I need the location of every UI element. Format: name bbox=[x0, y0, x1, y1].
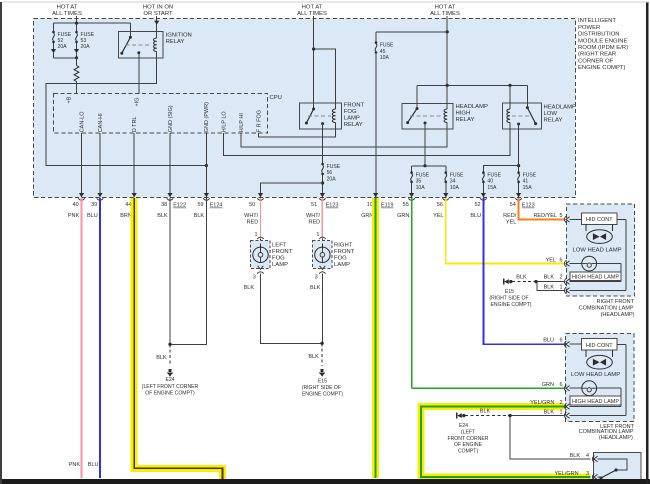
wire fuse top bus bbox=[54, 22, 131, 25]
svg-text:E15: E15 bbox=[318, 378, 327, 384]
svg-text:H/LP HI: H/LP HI bbox=[239, 113, 245, 133]
ignition relay bbox=[119, 31, 192, 58]
svg-text:HOT IN ON: HOT IN ON bbox=[143, 4, 173, 10]
svg-text:(LEFT: (LEFT bbox=[461, 429, 475, 435]
svg-text:WHT/: WHT/ bbox=[306, 213, 321, 219]
pin H/LP HI wire to high relay coil bbox=[239, 113, 447, 147]
svg-text:5: 5 bbox=[559, 213, 562, 219]
resistor (+B feed) bbox=[74, 58, 79, 94]
svg-text:FUSE: FUSE bbox=[327, 164, 341, 170]
svg-text:YEL: YEL bbox=[433, 213, 443, 219]
terminal 44 BRN bbox=[120, 193, 137, 219]
frame right bar bbox=[646, 2, 649, 484]
HIGH HEAD LAMP box (right) bbox=[570, 272, 621, 281]
svg-text:BLK: BLK bbox=[310, 285, 321, 291]
svg-text:PNK: PNK bbox=[68, 213, 80, 219]
svg-text:RELAY: RELAY bbox=[456, 117, 475, 123]
terminal 38 E122 BLK bbox=[157, 193, 186, 219]
svg-text:BLK: BLK bbox=[156, 355, 167, 361]
headlamp low relay switch bbox=[512, 85, 537, 125]
fuse 45 10A bbox=[375, 30, 449, 197]
svg-text:(RIGHT SIDE OF: (RIGHT SIDE OF bbox=[302, 385, 341, 391]
svg-text:20A: 20A bbox=[327, 176, 337, 182]
svg-text:HEADLAMP: HEADLAMP bbox=[456, 104, 488, 110]
svg-text:CORNER OF: CORNER OF bbox=[578, 58, 614, 64]
ignition relay coil bbox=[154, 25, 157, 58]
svg-text:YEL/GRN: YEL/GRN bbox=[554, 471, 578, 477]
front fog lamp relay bbox=[300, 103, 365, 129]
svg-text:RELAY: RELAY bbox=[166, 39, 185, 45]
svg-text:GND (PWR): GND (PWR) bbox=[204, 102, 210, 132]
terminal 39 BLU bbox=[87, 193, 103, 219]
svg-text:54: 54 bbox=[510, 202, 516, 208]
svg-text:RED: RED bbox=[247, 220, 259, 226]
svg-text:HEADLAMP: HEADLAMP bbox=[544, 104, 576, 110]
node HOT AT ALL TIMES (center) bbox=[297, 4, 327, 16]
svg-text:E15: E15 bbox=[505, 289, 514, 295]
svg-text:BLK: BLK bbox=[244, 285, 255, 291]
IPDM E/R dashed box bbox=[34, 19, 576, 198]
wire headlamp feed bus bbox=[417, 84, 527, 87]
wire BLK E24 to daytime relay bbox=[510, 416, 591, 459]
svg-text:RIGHT: RIGHT bbox=[334, 242, 353, 248]
svg-text:RIGHT FRONT: RIGHT FRONT bbox=[597, 299, 635, 305]
fuse 35 10A bbox=[410, 171, 429, 197]
svg-text:3: 3 bbox=[586, 471, 589, 477]
ground E24 (CPU grounds) bbox=[142, 343, 199, 397]
wire BLK from E122 bbox=[169, 198, 171, 344]
svg-text:E123: E123 bbox=[326, 203, 339, 209]
svg-text:2: 2 bbox=[559, 274, 562, 280]
wire fog switch output to fuse 56 bbox=[322, 124, 324, 164]
svg-text:RED/YEL: RED/YEL bbox=[533, 213, 557, 219]
wire fog output split to terminals 50/51 bbox=[261, 175, 325, 197]
svg-text:BLK: BLK bbox=[544, 284, 555, 290]
svg-text:6: 6 bbox=[559, 338, 562, 344]
svg-text:E119: E119 bbox=[381, 203, 393, 209]
daytime light relay box bbox=[554, 452, 640, 483]
svg-text:ENGINE COMPT): ENGINE COMPT) bbox=[490, 302, 531, 308]
svg-text:RED/: RED/ bbox=[503, 213, 517, 219]
frame top line bbox=[2, 1, 648, 3]
HID CONT box (right lamp) bbox=[582, 213, 617, 225]
ground E24 (left lamp) bbox=[448, 423, 489, 454]
svg-text:LOW HEAD LAMP: LOW HEAD LAMP bbox=[571, 372, 620, 378]
terminal 59 E124 BLK bbox=[194, 193, 223, 219]
wire feed 2 bbox=[154, 16, 159, 38]
svg-text:10A: 10A bbox=[416, 185, 426, 191]
svg-text:BLK: BLK bbox=[308, 354, 319, 360]
wire BLK right fog ground bbox=[310, 274, 322, 344]
svg-text:51: 51 bbox=[311, 202, 317, 208]
ground E15 (right lamp) bbox=[489, 289, 531, 308]
headlamp low relay bbox=[502, 103, 576, 129]
svg-text:GRN: GRN bbox=[542, 382, 554, 388]
wire BRN highlighted yellow bbox=[134, 198, 222, 480]
svg-text:10A: 10A bbox=[450, 185, 460, 191]
fuse 53 20A bbox=[74, 23, 95, 58]
pin F R FOG wire to fog relay coil bbox=[256, 110, 335, 137]
terminal 55 GRN bbox=[397, 193, 415, 219]
svg-text:E123: E123 bbox=[522, 203, 535, 209]
svg-text:F R FOG: F R FOG bbox=[256, 110, 262, 132]
wire fuse bottom bus bbox=[54, 56, 79, 59]
svg-text:LAMP: LAMP bbox=[334, 262, 350, 268]
svg-text:3: 3 bbox=[253, 275, 256, 281]
wire BLK right lamp to E15 bbox=[504, 275, 564, 291]
node HOT AT ALL TIMES (left) bbox=[52, 4, 82, 16]
svg-text:59: 59 bbox=[197, 202, 203, 208]
svg-text:H/LP LO: H/LP LO bbox=[221, 111, 227, 133]
pin H/LP LO wire to low relay coil bbox=[221, 111, 510, 156]
svg-text:41: 41 bbox=[523, 179, 529, 185]
svg-text:20A: 20A bbox=[81, 44, 91, 50]
svg-text:1: 1 bbox=[316, 232, 319, 238]
svg-text:LAMP: LAMP bbox=[344, 116, 360, 122]
xenon bulb (left lamp) bbox=[586, 350, 613, 369]
svg-text:HOT AT: HOT AT bbox=[57, 4, 78, 10]
svg-text:BLU: BLU bbox=[543, 338, 554, 344]
svg-text:FUSE: FUSE bbox=[523, 172, 537, 178]
wire ignition switch output to +IG bbox=[138, 53, 140, 94]
svg-text:6: 6 bbox=[559, 382, 562, 388]
svg-text:BLU: BLU bbox=[87, 213, 98, 219]
svg-text:PNK: PNK bbox=[69, 462, 81, 468]
svg-text:FUSE: FUSE bbox=[380, 43, 394, 49]
wire BLK from E124 bbox=[170, 198, 206, 344]
terminal 2 YEL/GRN left lamp bbox=[530, 400, 621, 410]
fuse 52 20A bbox=[51, 23, 72, 58]
svg-text:1: 1 bbox=[559, 410, 562, 416]
svg-text:BLK: BLK bbox=[157, 213, 168, 219]
HID CONT box (left lamp) bbox=[582, 339, 617, 351]
svg-text:RED: RED bbox=[308, 220, 320, 226]
high beam bulb (right lamp) bbox=[582, 256, 621, 281]
svg-text:HOT AT: HOT AT bbox=[435, 4, 456, 10]
svg-text:OR START: OR START bbox=[143, 11, 173, 17]
svg-text:FUSE: FUSE bbox=[58, 32, 72, 38]
svg-text:E122: E122 bbox=[173, 203, 186, 209]
svg-text:COMPT): COMPT) bbox=[458, 448, 478, 454]
svg-text:FRONT CORNER: FRONT CORNER bbox=[448, 436, 489, 442]
svg-text:ROOM (IPDM E/R): ROOM (IPDM E/R) bbox=[578, 45, 628, 51]
svg-text:FRONT: FRONT bbox=[334, 249, 355, 255]
svg-text:FOG: FOG bbox=[344, 109, 357, 115]
terminal 1 BLK left lamp bbox=[544, 344, 626, 419]
svg-text:LAMP: LAMP bbox=[272, 262, 288, 268]
svg-text:6: 6 bbox=[559, 258, 562, 264]
svg-text:YEL: YEL bbox=[546, 258, 556, 264]
svg-text:D TRL: D TRL bbox=[132, 117, 138, 133]
svg-text:FUSE: FUSE bbox=[487, 172, 501, 178]
ground E15 (fog lamps) bbox=[302, 342, 343, 398]
svg-text:(RIGHT SIDE OF: (RIGHT SIDE OF bbox=[489, 296, 528, 302]
svg-text:(HEADLAMP): (HEADLAMP) bbox=[601, 312, 635, 318]
svg-text:38: 38 bbox=[161, 202, 167, 208]
svg-text:COMBINATION LAMP: COMBINATION LAMP bbox=[579, 306, 634, 312]
HIGH HEAD LAMP box (left) bbox=[570, 396, 621, 405]
svg-text:OF ENGINE: OF ENGINE bbox=[454, 442, 483, 448]
terminal 6 BLU left lamp bbox=[543, 338, 581, 348]
svg-text:BLK: BLK bbox=[516, 275, 527, 281]
svg-text:CAN-HI: CAN-HI bbox=[98, 113, 104, 132]
svg-text:56: 56 bbox=[437, 202, 443, 208]
svg-text:GRN: GRN bbox=[397, 213, 409, 219]
svg-text:+B: +B bbox=[67, 96, 73, 103]
terminal 56 YEL bbox=[433, 193, 449, 219]
wire feed 1 bbox=[76, 16, 78, 23]
terminal 51 E123 WHT/RED bbox=[306, 193, 338, 226]
CPU box bbox=[54, 94, 282, 134]
svg-text:ALL TIMES: ALL TIMES bbox=[52, 11, 82, 17]
svg-text:1: 1 bbox=[559, 284, 562, 290]
svg-text:40: 40 bbox=[73, 202, 79, 208]
svg-text:INTELLIGENT: INTELLIGENT bbox=[578, 18, 616, 24]
front fog relay coil bbox=[312, 47, 336, 129]
svg-text:(HEADLAMP): (HEADLAMP) bbox=[599, 435, 633, 441]
svg-text:BLK: BLK bbox=[544, 410, 555, 416]
svg-text:52: 52 bbox=[474, 202, 480, 208]
terminal 40 PNK bbox=[68, 193, 85, 219]
svg-text:BLU: BLU bbox=[88, 462, 99, 468]
headlamp high relay coil bbox=[444, 85, 447, 129]
svg-text:MODULE ENGINE: MODULE ENGINE bbox=[578, 38, 627, 44]
wire WHT/RED to left fog lamp bbox=[254, 198, 263, 244]
svg-text:DISTRIBUTION: DISTRIBUTION bbox=[578, 32, 620, 38]
svg-text:HIGH: HIGH bbox=[456, 111, 471, 117]
wire GRN highlighted (E119) bbox=[372, 198, 379, 478]
svg-text:FRONT: FRONT bbox=[272, 249, 293, 255]
svg-text:FUSE: FUSE bbox=[450, 172, 464, 178]
svg-text:45: 45 bbox=[380, 49, 386, 55]
wire feed 4 bbox=[446, 16, 448, 109]
ignition relay switch bbox=[120, 23, 152, 55]
svg-text:BRN: BRN bbox=[120, 213, 132, 219]
fuse 34 10A bbox=[445, 171, 464, 197]
wire BLK left lamp to E24 bbox=[457, 409, 564, 419]
svg-text:56: 56 bbox=[327, 170, 333, 176]
svg-text:20A: 20A bbox=[58, 44, 68, 50]
svg-text:LOW HEAD LAMP: LOW HEAD LAMP bbox=[572, 248, 621, 254]
svg-text:(RIGHT REAR: (RIGHT REAR bbox=[578, 52, 616, 58]
terminal 1 BLK right lamp bbox=[544, 219, 626, 293]
svg-text:15A: 15A bbox=[523, 185, 533, 191]
left front fog lamp bbox=[251, 240, 293, 273]
wire RED/YEL to right head lamp bbox=[519, 198, 564, 219]
svg-text:POWER: POWER bbox=[578, 25, 600, 31]
svg-text:BLK: BLK bbox=[570, 453, 581, 459]
wire low relay output to fuses 40/41 bbox=[483, 124, 520, 173]
headlamp high relay switch bbox=[406, 85, 441, 124]
svg-text:(LEFT FRONT CORNER: (LEFT FRONT CORNER bbox=[142, 384, 199, 390]
wire GRN to left head lamp bbox=[411, 198, 413, 388]
wire YEL to right head lamp bbox=[446, 198, 564, 263]
terminal 52 BLU bbox=[470, 193, 486, 219]
svg-text:E24: E24 bbox=[165, 377, 174, 383]
wire BLU to left head lamp bbox=[483, 198, 564, 344]
fuse 41 15A bbox=[517, 171, 536, 197]
svg-text:RELAY: RELAY bbox=[544, 117, 563, 123]
wire BLK left fog ground bbox=[244, 274, 323, 344]
headlamp low relay coil bbox=[507, 85, 510, 129]
wire PNK bbox=[69, 198, 82, 478]
svg-text:HID CONT: HID CONT bbox=[586, 343, 613, 349]
svg-text:10A: 10A bbox=[380, 55, 390, 61]
right front fog lamp bbox=[312, 240, 354, 273]
svg-text:YEL: YEL bbox=[506, 220, 516, 226]
svg-text:ALL TIMES: ALL TIMES bbox=[297, 11, 327, 17]
headlamp high relay bbox=[402, 104, 488, 129]
svg-text:10: 10 bbox=[367, 202, 373, 208]
left front combination lamp box bbox=[566, 334, 635, 441]
svg-text:1: 1 bbox=[254, 232, 257, 238]
fuse 40 15A bbox=[482, 171, 501, 197]
pin GND (SIG) bbox=[168, 105, 174, 197]
svg-text:44: 44 bbox=[125, 202, 131, 208]
high beam bulb (left lamp) bbox=[582, 381, 621, 407]
svg-text:BLK: BLK bbox=[480, 409, 491, 415]
fuse 56 20A bbox=[321, 163, 340, 183]
pin CAN-LO bbox=[79, 111, 85, 198]
svg-text:34: 34 bbox=[450, 179, 456, 185]
svg-text:FUSE: FUSE bbox=[81, 32, 95, 38]
wire ignition coil return to GND(PWR) bbox=[46, 58, 208, 167]
svg-text:LEFT: LEFT bbox=[272, 242, 287, 248]
terminal 54 E123 RED/YEL bbox=[503, 193, 535, 226]
svg-text:50: 50 bbox=[249, 202, 255, 208]
right front combination lamp box bbox=[566, 204, 634, 318]
terminal 6 GRN left lamp bbox=[542, 382, 582, 391]
svg-text:ENGINE COMPT): ENGINE COMPT) bbox=[302, 391, 343, 397]
svg-text:FOG: FOG bbox=[272, 256, 285, 262]
svg-text:BLU: BLU bbox=[470, 213, 481, 219]
svg-text:GND (SIG): GND (SIG) bbox=[168, 105, 174, 132]
svg-text:E24: E24 bbox=[459, 423, 468, 429]
svg-text:BLK: BLK bbox=[194, 213, 205, 219]
pin GND (PWR) bbox=[204, 102, 210, 198]
svg-text:FUSE: FUSE bbox=[416, 172, 430, 178]
terminal 5 RED/YEL right lamp bbox=[533, 213, 581, 223]
terminal 10 E119 GRN bbox=[361, 193, 393, 219]
svg-text:HIGH HEAD LAMP: HIGH HEAD LAMP bbox=[572, 399, 619, 405]
pin CAN-HI bbox=[98, 113, 104, 198]
svg-text:E124: E124 bbox=[210, 203, 223, 209]
svg-text:WHT/: WHT/ bbox=[244, 213, 259, 219]
svg-text:LOW: LOW bbox=[544, 111, 558, 117]
IPDM E/R title text bbox=[578, 18, 628, 71]
svg-text:39: 39 bbox=[91, 202, 97, 208]
svg-text:CPU: CPU bbox=[270, 95, 282, 101]
svg-text:2: 2 bbox=[559, 400, 562, 406]
svg-text:ALL TIMES: ALL TIMES bbox=[430, 11, 460, 17]
wire BLU bbox=[88, 198, 100, 478]
svg-text:3: 3 bbox=[315, 275, 318, 281]
svg-text:BLK: BLK bbox=[544, 274, 555, 280]
node HOT AT ALL TIMES (right) bbox=[430, 4, 460, 16]
svg-text:RELAY: RELAY bbox=[344, 122, 363, 128]
svg-text:FOG: FOG bbox=[334, 256, 347, 262]
pin D TRL bbox=[132, 117, 138, 198]
wire WHT/RED to right fog lamp bbox=[316, 198, 325, 244]
svg-text:HOT AT: HOT AT bbox=[302, 4, 323, 10]
svg-text:ENGINE COMPT): ENGINE COMPT) bbox=[578, 65, 625, 71]
svg-text:40: 40 bbox=[487, 179, 493, 185]
frame left bar bbox=[0, 2, 2, 484]
svg-text:OF ENGINE COMPT): OF ENGINE COMPT) bbox=[145, 390, 195, 396]
terminal 50 WHT/RED bbox=[244, 193, 264, 226]
wire feed 3 bbox=[313, 16, 315, 109]
svg-text:35: 35 bbox=[416, 179, 422, 185]
node HOT IN ON OR START bbox=[143, 4, 173, 16]
wire YEL/GRN highlighted from DTRL relay to left lamp bbox=[421, 407, 591, 477]
svg-text:CAN-LO: CAN-LO bbox=[79, 111, 85, 133]
frame bottom bar bbox=[0, 479, 650, 484]
svg-text:HID CONT: HID CONT bbox=[586, 217, 613, 223]
wire high relay output to fuses 35/34 bbox=[412, 123, 446, 173]
svg-text:+IG: +IG bbox=[134, 97, 140, 106]
svg-text:FRONT: FRONT bbox=[344, 103, 365, 109]
svg-text:HIGH HEAD LAMP: HIGH HEAD LAMP bbox=[572, 274, 619, 280]
xenon bulb (right lamp) bbox=[586, 225, 613, 244]
svg-text:55: 55 bbox=[403, 202, 409, 208]
svg-text:GRN: GRN bbox=[361, 213, 373, 219]
front fog relay switch bbox=[305, 108, 331, 126]
terminal 2 BLK right lamp bbox=[544, 274, 621, 285]
svg-text:YEL/GRN: YEL/GRN bbox=[530, 400, 554, 406]
svg-text:15A: 15A bbox=[487, 185, 497, 191]
svg-text:4: 4 bbox=[586, 453, 589, 459]
terminal 6 YEL right lamp bbox=[546, 258, 582, 267]
svg-text:IGNITION: IGNITION bbox=[166, 33, 192, 39]
